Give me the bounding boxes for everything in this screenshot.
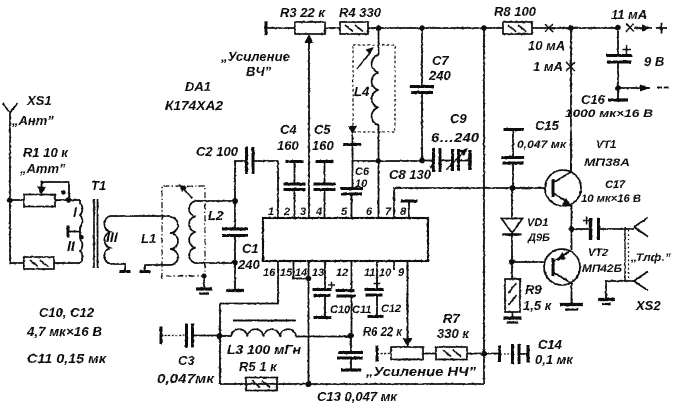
svg-text:14: 14: [295, 267, 307, 279]
capacitor C17 electrolytic coupling: [572, 228, 591, 230]
resistor R8: [503, 22, 532, 34]
L4 trimming arrow: [357, 52, 371, 70]
resistor R6 potentiometer body: [391, 347, 423, 360]
capacitor C15: [512, 130, 514, 157]
wire L2 bottom: [196, 262, 236, 264]
svg-text:C12: C12: [381, 303, 401, 315]
resistor R4: [340, 22, 368, 34]
node pin15 pin14: [306, 276, 312, 282]
svg-text:C13 0,047 мк: C13 0,047 мк: [317, 389, 398, 404]
node minus rail: [615, 85, 621, 91]
T1 winding III: [104, 216, 110, 264]
capacitor C16 electrolytic: [617, 28, 619, 56]
capacitor C8: [422, 160, 433, 162]
resistor R5 in bottom rail: [246, 378, 277, 391]
svg-text:C15: C15: [535, 118, 560, 133]
svg-text:I: I: [73, 204, 78, 220]
antenna XS1: [3, 103, 18, 200]
node R1 left: [7, 197, 13, 203]
pin8 stub and common bar: [408, 202, 410, 218]
wire: [325, 27, 340, 29]
C9 trimmer arrow: [446, 152, 464, 170]
C17 plus mark: [583, 217, 591, 225]
svg-text:160: 160: [312, 138, 334, 153]
svg-text:T1: T1: [91, 178, 106, 193]
svg-text:9: 9: [398, 267, 405, 279]
C16 bottom stub to common bar: [617, 88, 619, 99]
resistor R7: [436, 347, 467, 360]
ground under R9: [512, 312, 514, 317]
terminal bar left of R3: [265, 21, 268, 35]
BOTTOMBLOCK: [161, 304, 528, 391]
svg-text:8: 8: [400, 206, 407, 218]
wire R6 left: [377, 353, 391, 355]
resistor R1 (attenuator pot): [24, 195, 55, 207]
wire top rail R4 to R8: [368, 27, 503, 29]
inductor L2: [189, 201, 195, 263]
svg-text:R1 10 к: R1 10 к: [23, 145, 69, 160]
inductor L3 with core: [220, 335, 232, 337]
svg-text:L4: L4: [354, 84, 370, 99]
svg-text:1000 мк×16 В: 1000 мк×16 В: [565, 108, 653, 120]
node C3 L3 pin16: [217, 333, 223, 339]
node C7 bottom: [419, 158, 425, 164]
svg-text:9 В: 9 В: [644, 54, 664, 69]
svg-text:„Тлф.”: „Тлф.”: [630, 252, 672, 264]
pin16 wire down and left: [220, 261, 278, 304]
node pin6 wire: [376, 158, 382, 164]
node collector rail: [568, 25, 574, 31]
node C1 bottom: [232, 260, 238, 266]
bottom rail wire C13: [220, 383, 484, 385]
svg-text:6: 6: [366, 206, 373, 218]
svg-text:10 мк×16 В: 10 мк×16 В: [581, 193, 641, 205]
svg-text:C8 130: C8 130: [389, 167, 432, 182]
svg-text:2: 2: [283, 206, 290, 218]
wire L2 top to node: [196, 200, 236, 202]
TOPRAIL: [266, 21, 669, 384]
capacitor C4 on pin2: [286, 160, 304, 163]
XS2 link dotted: [624, 227, 626, 281]
svg-text:12: 12: [336, 267, 348, 279]
break mark x 1mA: [566, 62, 575, 71]
svg-text:7: 7: [385, 206, 392, 218]
svg-text:10: 10: [355, 178, 368, 190]
svg-text:4,7 мк×16 В: 4,7 мк×16 В: [26, 324, 102, 339]
svg-text:C11 0,15 мк: C11 0,15 мк: [27, 351, 108, 366]
R1 wiper loop to right terminal: [42, 182, 70, 200]
svg-text:11: 11: [364, 267, 375, 279]
minus sign: [657, 87, 669, 89]
wire R7 to node: [467, 353, 498, 355]
svg-text:„Усиление НЧ”: „Усиление НЧ”: [365, 364, 477, 379]
svg-text:1 мА: 1 мА: [533, 59, 563, 74]
MIDBLOCK: [502, 130, 649, 323]
shield box dash-dot around L1 L2: [162, 186, 205, 279]
R1 wiper arrow: [37, 187, 46, 196]
svg-text:160: 160: [277, 138, 299, 153]
wire R1 right: [55, 199, 80, 201]
svg-text:К174ХА2: К174ХА2: [165, 98, 224, 113]
svg-text:C1: C1: [242, 241, 259, 256]
pin10 stub: [393, 261, 395, 270]
ground under VT2: [560, 303, 583, 306]
svg-text:240: 240: [237, 257, 260, 272]
transistor Q2 VT2: [544, 249, 580, 285]
C16 plus mark: [622, 45, 631, 54]
svg-text:C11: C11: [352, 304, 371, 316]
node VD1 R9 VT2 base: [509, 259, 515, 265]
capacitor C3 left common bar: [160, 327, 163, 345]
wire C6 top to pin6 line: [353, 160, 423, 162]
svg-text:R5 1 к: R5 1 к: [239, 359, 278, 374]
node L2 C1 C2: [232, 198, 238, 204]
svg-text:0,047 мк: 0,047 мк: [517, 139, 568, 151]
svg-text:3: 3: [300, 206, 306, 218]
svg-text:VT2: VT2: [588, 247, 608, 259]
wire R2 to winding II: [54, 262, 80, 264]
node C11 L3: [348, 333, 354, 339]
T1 core: [94, 199, 98, 268]
svg-text:C14: C14: [538, 337, 563, 352]
node emitters C17: [569, 226, 575, 232]
svg-text:III: III: [106, 229, 119, 245]
node right vertical top: [481, 25, 487, 31]
C10 plus mark: [328, 282, 335, 289]
wire and arrow to plus terminal: [634, 27, 652, 29]
transistor Q1 VT1: [545, 170, 581, 206]
svg-text:1: 1: [268, 206, 274, 218]
svg-text:„Усиление: „Усиление: [220, 49, 290, 64]
svg-text:VD1: VD1: [527, 217, 548, 229]
capacitor C3: [161, 335, 186, 337]
svg-text:C10: C10: [330, 304, 351, 316]
wire R8 to node: [532, 27, 618, 29]
svg-text:0,047мк: 0,047мк: [157, 371, 216, 386]
phase dot winding II: [79, 235, 83, 239]
svg-text:C5: C5: [314, 122, 331, 137]
svg-text:11 мА: 11 мА: [611, 7, 647, 22]
svg-text:10: 10: [379, 267, 392, 279]
RIGHTBLOCK: [0, 0, 1, 1]
shield node: [201, 273, 206, 278]
op-amp U1 IC DA1 K174XA2 body: [263, 218, 428, 261]
capacitor C7: [421, 28, 423, 86]
L4 shield box dashed: [353, 45, 395, 132]
svg-text:Д9Б: Д9Б: [527, 232, 550, 244]
wire pin6 down: [378, 161, 380, 218]
svg-text:6…240: 6…240: [431, 130, 480, 145]
capacitor C2: [235, 161, 246, 201]
wire to VT2 base: [512, 261, 545, 263]
capacitor C9 trimmer: [451, 149, 454, 171]
node C14 rail: [481, 351, 487, 357]
wire node up to pin16 route: [219, 304, 221, 337]
phone jack XS2 upper contact: [634, 218, 648, 237]
resistor R3 (potentiometer body): [295, 22, 325, 34]
svg-text:VT1: VT1: [596, 139, 616, 151]
svg-text:C17: C17: [605, 179, 626, 191]
svg-text:16: 16: [263, 267, 276, 279]
svg-text:C16: C16: [581, 92, 606, 107]
transformer T1 winding I: [80, 200, 82, 227]
svg-text:МП38А: МП38А: [584, 157, 630, 169]
svg-text:R6 22 к: R6 22 к: [363, 324, 403, 339]
svg-text:R4 330: R4 330: [339, 5, 382, 20]
svg-text:L3 100 мГн: L3 100 мГн: [227, 342, 301, 357]
svg-text:13: 13: [312, 267, 324, 279]
svg-text:*: *: [429, 163, 434, 175]
common bar of C6 line: [343, 143, 361, 146]
capacitor C12 electrolytic on pin11: [376, 261, 378, 289]
resistor R2: [24, 257, 54, 269]
svg-text:C6: C6: [355, 166, 370, 178]
transformer T1 winding II: [80, 239, 82, 263]
collector rail VT1: [570, 28, 572, 171]
capacitor C5 on pin4: [316, 160, 334, 163]
svg-text:„Атт”: „Атт”: [19, 161, 66, 176]
pin15 stub: [294, 261, 309, 279]
phase dot winding I: [61, 190, 65, 194]
inductor L4: [378, 28, 380, 55]
svg-text:DA1: DA1: [185, 79, 211, 94]
pin9 wire to R6 wiper: [407, 261, 409, 340]
wire to R1: [10, 199, 24, 201]
svg-text:R8 100: R8 100: [494, 4, 537, 19]
R6 left common bar: [376, 346, 379, 362]
node R5 pin14: [306, 381, 312, 387]
tap wire and common bar: [69, 231, 80, 233]
wire and arrow to minus terminal: [618, 87, 650, 89]
L1 bottom stub: [145, 265, 170, 271]
node C16 top: [615, 25, 621, 31]
wire lower contact to ground: [606, 281, 634, 299]
ground under XS2: [598, 298, 615, 301]
ICBLOCK: [220, 148, 546, 384]
svg-text:R3 22 к: R3 22 к: [280, 5, 326, 20]
shield ground: [203, 276, 205, 288]
svg-text:C10, C12: C10, C12: [39, 305, 95, 320]
LEFTBLOCK: [3, 103, 279, 294]
shield box ground arrow: [348, 126, 357, 134]
node C7 top: [419, 25, 425, 31]
diode VD1: [511, 188, 513, 219]
svg-text:C2 100: C2 100: [196, 144, 239, 159]
svg-text:R9: R9: [525, 282, 542, 297]
wire pin7 to AF line: [394, 188, 546, 218]
svg-text:XS1: XS1: [26, 93, 52, 108]
T1 tap segment: [79, 227, 81, 239]
svg-text:5: 5: [341, 206, 348, 218]
coupling wire III to L1: [110, 215, 170, 217]
capacitor C13 below node: [350, 336, 352, 353]
C1 bottom stub to common bar: [234, 262, 236, 290]
svg-text:XS2: XS2: [635, 298, 661, 313]
winding III bottom stub: [110, 264, 125, 271]
wiper arrow of R3 to pin3: [308, 42, 310, 218]
node AF line VD1 C15: [510, 185, 516, 191]
svg-text:240: 240: [428, 68, 451, 83]
break mark x after R8: [545, 24, 553, 32]
wire antenna down to R2: [10, 200, 24, 263]
svg-text:C3: C3: [178, 353, 195, 368]
phone jack XS2 lower contact: [634, 272, 648, 291]
wire: [266, 27, 295, 29]
vertical feed rail right: [483, 28, 485, 384]
svg-text:C4: C4: [280, 122, 297, 137]
capacitor C15 top common bar: [504, 128, 524, 131]
capacitor C1: [234, 201, 236, 228]
C12 plus mark: [374, 280, 381, 287]
svg-text:„Ант”: „Ант”: [11, 113, 54, 128]
svg-text:L1: L1: [141, 231, 156, 246]
svg-text:1,5 к: 1,5 к: [523, 298, 553, 313]
svg-text:15: 15: [280, 267, 293, 279]
svg-text:10 мА: 10 мА: [528, 38, 565, 53]
plus sign: [656, 23, 667, 34]
shield stub to common bar: [352, 134, 354, 161]
svg-text:0,1 мк: 0,1 мк: [535, 352, 574, 367]
svg-text:C9: C9: [450, 111, 467, 126]
svg-text:330 к: 330 к: [437, 326, 470, 341]
wire R6 to R7: [423, 353, 436, 355]
svg-text:R7: R7: [443, 311, 460, 326]
break mark x before plus: [626, 24, 634, 32]
pin14 wire down to bottom rail: [308, 261, 310, 384]
capacitor C6 on pin5: [352, 161, 354, 188]
capacitor C10 electrolytic on pin13: [324, 261, 326, 289]
svg-text:ВЧ”: ВЧ”: [246, 64, 272, 79]
node L4 top: [376, 25, 382, 31]
svg-text:II: II: [67, 238, 76, 254]
L2 trimming arrow: [182, 187, 192, 198]
svg-text:C7: C7: [432, 53, 449, 68]
resistor R9 vertical: [511, 262, 513, 279]
inductor L1: [170, 217, 178, 265]
capacitor C11 on pin12: [351, 261, 353, 290]
wire C2 to pin1: [254, 161, 278, 218]
wire node down to bottom rail: [219, 336, 221, 384]
node R1 right: [66, 197, 72, 203]
svg-text:МП42Б: МП42Б: [582, 263, 622, 275]
capacitor C14: [498, 346, 501, 363]
svg-text:4: 4: [315, 206, 322, 218]
svg-text:L2: L2: [208, 208, 224, 223]
